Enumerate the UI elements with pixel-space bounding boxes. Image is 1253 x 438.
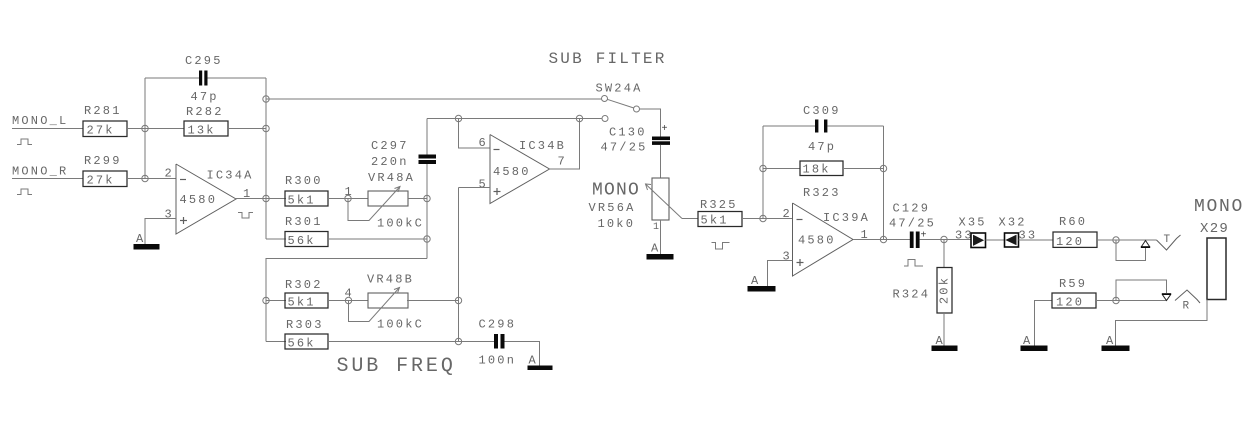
resistor R302 xyxy=(285,293,328,308)
IC39A minus sign xyxy=(797,219,803,221)
svg-text:3: 3 xyxy=(783,250,790,264)
capacitor C309 xyxy=(815,120,818,133)
wire R60 to tip contact xyxy=(1097,239,1157,241)
svg-text:1: 1 xyxy=(653,222,659,233)
wire MONO_R input xyxy=(12,178,83,180)
capacitor C129 electrolytic xyxy=(910,232,914,249)
wire X29 to ground xyxy=(1116,300,1208,346)
junction R301/C297 node xyxy=(424,236,430,242)
wire R324 bottom to ground xyxy=(943,313,945,346)
wire VR48B right xyxy=(407,300,459,302)
svg-text:47p: 47p xyxy=(808,140,836,154)
svg-text:R302: R302 xyxy=(285,278,323,292)
wire R323 left xyxy=(763,168,800,170)
wire mid rail C297 to IC34B feedback xyxy=(427,118,602,120)
svg-text:R323: R323 xyxy=(803,186,841,200)
junction R323 left xyxy=(760,165,766,171)
junction R323 right xyxy=(880,165,886,171)
wire R324 top xyxy=(943,240,945,268)
IC34B plus sign xyxy=(494,191,501,193)
jack ring switch triangle xyxy=(1163,295,1171,301)
junction top rail xyxy=(263,96,269,102)
wire X32 to R60 xyxy=(1019,239,1054,241)
resistor R60 xyxy=(1053,232,1097,247)
VR56A wiper arm xyxy=(646,184,683,219)
wire cross link lower xyxy=(266,259,427,342)
svg-text:4580: 4580 xyxy=(798,234,836,248)
jack R contact symbol xyxy=(1175,290,1200,303)
resistor R282 xyxy=(184,121,228,136)
svg-text:X29: X29 xyxy=(1200,221,1229,237)
svg-text:100kC: 100kC xyxy=(377,318,424,332)
wire MONO_L input xyxy=(12,128,83,130)
svg-text:X32: X32 xyxy=(999,216,1027,230)
wire C295 feedback left xyxy=(145,77,199,79)
wire vertical pin5 to VR48B node xyxy=(458,188,460,342)
junction pin 6 branch xyxy=(455,115,461,121)
capacitor C295 xyxy=(199,71,202,86)
resistor R299 xyxy=(83,171,127,187)
svg-text:C309: C309 xyxy=(803,104,841,118)
svg-text:R303: R303 xyxy=(286,318,324,332)
switch SW24A contact top xyxy=(602,96,608,102)
op-amp IC34B xyxy=(490,135,550,204)
wire C298 to ground xyxy=(505,342,540,366)
wire VR48A right xyxy=(408,198,427,200)
wire R281 to R282 xyxy=(127,128,184,130)
junction IC39A output feedback xyxy=(880,236,886,242)
svg-text:47p: 47p xyxy=(191,90,219,104)
wire R325 to IC39A pin 2 xyxy=(742,218,793,220)
svg-text:R301: R301 xyxy=(285,215,323,229)
junction VR48A/C297 node xyxy=(424,195,430,201)
svg-text:VR48A: VR48A xyxy=(368,171,415,185)
wire IC34B output xyxy=(550,119,580,170)
svg-text:100kC: 100kC xyxy=(377,217,424,231)
junction R323 feedback left lower xyxy=(760,215,766,221)
svg-text:56k: 56k xyxy=(288,234,316,248)
svg-text:A: A xyxy=(651,242,659,256)
svg-text:10k0: 10k0 xyxy=(598,217,636,231)
capacitor C130 electrolytic xyxy=(652,137,670,141)
svg-text:VR56A: VR56A xyxy=(589,201,636,215)
junction R303/C298 node xyxy=(455,338,461,344)
svg-text:T: T xyxy=(1164,234,1171,246)
svg-text:47/25: 47/25 xyxy=(601,141,648,155)
connector X32 symbol xyxy=(1005,233,1019,247)
switch SW24A pole xyxy=(634,106,640,112)
svg-text:MONO_L: MONO_L xyxy=(12,114,68,128)
junction R60 output node xyxy=(1113,237,1119,243)
wire R302 left xyxy=(266,300,286,302)
capacitor C297 xyxy=(419,155,437,159)
junction R59 output node xyxy=(1113,297,1119,303)
switch SW24A contact bottom xyxy=(602,116,608,122)
op-amp IC34A xyxy=(176,164,236,234)
wire feedback left vertical xyxy=(762,126,764,219)
junction IC34A output node xyxy=(263,195,269,201)
wire vertical C297 branch lower xyxy=(426,164,428,259)
wire R59 to ring contact xyxy=(1096,300,1167,302)
jack T contact symbol xyxy=(1157,235,1181,250)
svg-text:VR48B: VR48B xyxy=(367,273,414,287)
wire IC34B pin 6 branch xyxy=(459,119,491,149)
jack tip switch triangle xyxy=(1142,241,1150,247)
pulse symbol MONO_L xyxy=(17,139,32,145)
svg-text:R281: R281 xyxy=(84,104,122,118)
wire R302 to VR48B xyxy=(328,300,368,302)
wire C295 feedback right xyxy=(208,77,267,79)
connector X35 symbol xyxy=(971,233,986,248)
wire vertical node B left xyxy=(144,78,146,179)
wire IC34A output xyxy=(236,198,286,200)
capacitor C298 xyxy=(494,334,498,349)
svg-text:IC39A: IC39A xyxy=(823,211,870,225)
svg-text:4580: 4580 xyxy=(180,193,218,207)
svg-text:R59: R59 xyxy=(1059,277,1087,291)
resistor R300 xyxy=(285,191,328,206)
potentiometer VR48A body xyxy=(368,191,408,206)
junction R282 right xyxy=(263,125,269,131)
svg-text:C295: C295 xyxy=(185,54,223,68)
resistor R303 xyxy=(285,334,328,349)
resistor R324 vertical xyxy=(937,268,952,314)
wire R303 to C298 xyxy=(328,341,494,343)
wire VR56A wiper to R325 xyxy=(682,218,698,220)
svg-text:1: 1 xyxy=(345,185,352,199)
svg-text:C130: C130 xyxy=(609,126,647,140)
svg-text:5: 5 xyxy=(479,178,486,192)
wire C309 left xyxy=(763,125,815,127)
svg-text:6: 6 xyxy=(479,136,486,150)
svg-text:IC34A: IC34A xyxy=(207,169,254,183)
wire C309 right xyxy=(828,125,884,127)
wire R301 left xyxy=(266,238,286,240)
svg-text:MONO: MONO xyxy=(592,181,640,201)
wire R303 left xyxy=(266,341,286,343)
wire ring switch loop xyxy=(1116,280,1167,301)
wire vertical output node IC34A xyxy=(265,78,267,239)
svg-text:R324: R324 xyxy=(893,288,931,302)
pulse symbol IC34A output xyxy=(238,213,253,219)
svg-text:+: + xyxy=(662,124,668,135)
wire IC39A output xyxy=(853,239,910,241)
svg-text:56k: 56k xyxy=(288,337,316,351)
VR48B wiper arm xyxy=(349,288,400,322)
wire R282 to node xyxy=(228,128,266,130)
svg-text:A: A xyxy=(529,354,537,368)
svg-text:4580: 4580 xyxy=(493,165,531,179)
svg-text:MONO_R: MONO_R xyxy=(12,165,68,179)
svg-text:27k: 27k xyxy=(87,174,115,188)
resistor R325 xyxy=(698,212,742,227)
pulse symbol MONO_R xyxy=(17,189,32,195)
VR48A wiper arrowhead xyxy=(395,187,401,193)
IC34A plus sign xyxy=(180,220,187,222)
svg-text:C298: C298 xyxy=(479,318,517,332)
junction R302 left xyxy=(263,297,269,303)
svg-text:C297: C297 xyxy=(371,139,409,153)
svg-text:MONO: MONO xyxy=(1194,197,1244,217)
svg-text:220n: 220n xyxy=(371,155,409,169)
wire R59 ground branch xyxy=(1035,301,1053,346)
svg-text:120: 120 xyxy=(1056,235,1084,249)
svg-text:47/25: 47/25 xyxy=(889,217,936,231)
svg-text:SUB FREQ: SUB FREQ xyxy=(337,355,456,378)
svg-text:2: 2 xyxy=(165,167,172,181)
svg-text:3: 3 xyxy=(165,208,172,222)
svg-text:4: 4 xyxy=(345,287,352,301)
junction R299/inverting input xyxy=(142,175,148,181)
pulse symbol R325 xyxy=(712,243,730,250)
svg-text:5k1: 5k1 xyxy=(288,296,316,310)
svg-text:20k: 20k xyxy=(938,276,952,304)
junction IC34B output feedback xyxy=(576,115,582,121)
svg-text:120: 120 xyxy=(1056,296,1084,310)
connector X29 body xyxy=(1207,238,1226,300)
potentiometer VR56A body xyxy=(652,178,669,220)
wire VR56A to ground xyxy=(660,220,662,254)
svg-text:IC34B: IC34B xyxy=(519,139,566,153)
IC34A minus sign xyxy=(180,179,186,181)
svg-text:5k1: 5k1 xyxy=(701,214,729,228)
VR56A wiper arrowhead xyxy=(646,184,652,190)
wire top rail to SW24A xyxy=(266,98,602,100)
svg-text:13k: 13k xyxy=(188,124,216,138)
svg-text:R60: R60 xyxy=(1059,215,1087,229)
resistor R301 xyxy=(285,232,328,247)
svg-text:R: R xyxy=(1183,301,1190,313)
wire vertical C297 branch upper xyxy=(426,119,428,155)
svg-text:18k: 18k xyxy=(803,163,831,177)
resistor R323 xyxy=(800,161,843,176)
svg-text:SW24A: SW24A xyxy=(596,82,643,96)
svg-text:X35: X35 xyxy=(959,216,987,230)
svg-text:100n: 100n xyxy=(479,354,517,368)
junction VR48B pin 4 xyxy=(345,297,351,303)
resistor R281 xyxy=(83,121,127,137)
svg-text:R300: R300 xyxy=(285,174,323,188)
junction R281/R282/C295 node xyxy=(142,125,148,131)
VR48A wiper arm xyxy=(348,187,400,221)
svg-text:A: A xyxy=(136,232,144,246)
svg-text:2: 2 xyxy=(783,207,790,221)
VR48B wiper arrowhead xyxy=(394,288,400,294)
switch SW24A lever xyxy=(607,99,634,108)
potentiometer VR48B body xyxy=(368,293,408,308)
wire tip switch loop xyxy=(1116,240,1146,261)
svg-text:R325: R325 xyxy=(700,198,738,212)
wire feedback right vertical xyxy=(883,126,885,240)
wire IC34B pin 5 xyxy=(459,187,491,189)
wire R323 right xyxy=(843,168,884,170)
wire R301 right xyxy=(328,238,427,240)
svg-text:C129: C129 xyxy=(893,202,931,216)
wire R299 to IC34A pin 2 xyxy=(127,178,176,180)
wire SW24A to C130 xyxy=(640,109,661,137)
svg-text:5k1: 5k1 xyxy=(288,194,316,208)
op-amp IC39A xyxy=(793,203,854,276)
svg-text:27k: 27k xyxy=(87,124,115,138)
svg-text:A: A xyxy=(751,274,759,288)
wire C129 to X35 xyxy=(920,239,971,241)
wire IC34A pin 3 to ground xyxy=(145,219,176,245)
svg-text:SUB FILTER: SUB FILTER xyxy=(549,50,667,68)
junction R324 node xyxy=(941,236,947,242)
pulse symbol C129 xyxy=(904,260,923,267)
wire R300 to VR48A xyxy=(328,198,368,200)
svg-text:7: 7 xyxy=(558,155,565,169)
resistor R59 xyxy=(1052,293,1096,308)
wire X35 to X32 xyxy=(986,239,1005,241)
junction VR48A pin 1 xyxy=(345,195,351,201)
junction VR48B/pin5 node xyxy=(455,297,461,303)
svg-text:R299: R299 xyxy=(84,154,122,168)
wire IC39A pin 3 to ground xyxy=(768,261,793,287)
IC39A plus sign xyxy=(797,262,804,264)
IC34B minus sign xyxy=(494,149,500,151)
wire C130 to VR56A xyxy=(660,145,662,178)
svg-text:R282: R282 xyxy=(186,105,224,119)
